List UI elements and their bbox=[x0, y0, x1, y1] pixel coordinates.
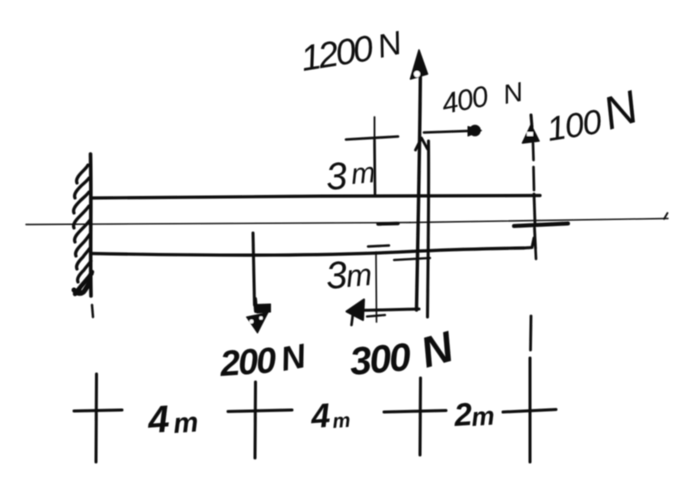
force arrow 200N bbox=[247, 233, 271, 333]
svg-text:200: 200 bbox=[218, 339, 278, 384]
force line 1200N vertical bbox=[417, 58, 421, 310]
bottom dimension cross 3 bbox=[384, 378, 446, 455]
label 300N bbox=[348, 323, 459, 384]
upper dimension tick 3m bbox=[346, 117, 398, 196]
svg-text:m: m bbox=[350, 157, 377, 191]
lower dimension tick 3m bbox=[367, 252, 385, 322]
svg-text:4: 4 bbox=[309, 397, 332, 436]
bottom dimension cross 1 bbox=[74, 305, 122, 462]
svg-text:m: m bbox=[470, 400, 495, 432]
small arrowhead on second stem bbox=[416, 138, 428, 150]
label 3m lower bbox=[324, 254, 373, 298]
arrowhead 1200N bbox=[411, 50, 428, 79]
bottom dimension cross 4 bbox=[503, 316, 556, 462]
bottom dimension cross 2 bbox=[228, 382, 292, 458]
beam bottom line bbox=[92, 238, 534, 260]
label 1200N bbox=[298, 24, 405, 79]
svg-text:4: 4 bbox=[146, 399, 171, 442]
label 200N bbox=[218, 337, 310, 384]
label 3m upper bbox=[324, 155, 377, 199]
second vertical line (400N/300N stem) bbox=[428, 141, 429, 317]
svg-text:m: m bbox=[345, 257, 374, 294]
label 400N bbox=[439, 77, 526, 121]
force arrow 400N horizontal bbox=[424, 125, 482, 137]
svg-text:3: 3 bbox=[324, 155, 349, 199]
svg-text:m: m bbox=[332, 410, 351, 433]
beam top line bbox=[92, 196, 540, 199]
svg-text:300: 300 bbox=[348, 336, 413, 384]
label 4m left bbox=[146, 399, 200, 442]
svg-text:m: m bbox=[172, 406, 199, 439]
label 4m middle bbox=[309, 397, 351, 436]
centerline of beam bbox=[26, 213, 668, 226]
wall hatching bbox=[74, 165, 92, 294]
label 100N bbox=[544, 80, 644, 149]
label 2m right bbox=[452, 396, 496, 433]
wall support line bbox=[89, 154, 93, 296]
force arrow 300N bbox=[347, 300, 420, 326]
force arrow 100N bbox=[523, 115, 540, 259]
